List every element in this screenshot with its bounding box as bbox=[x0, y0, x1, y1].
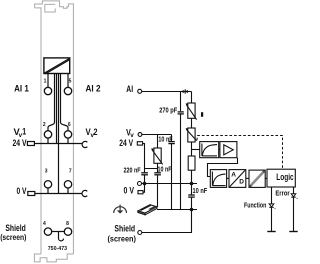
svg-text:10 nF: 10 nF bbox=[193, 188, 208, 195]
svg-text:7: 7 bbox=[69, 168, 72, 174]
svg-text:2: 2 bbox=[94, 127, 98, 137]
svg-text:3: 3 bbox=[45, 168, 48, 174]
svg-text:4: 4 bbox=[43, 221, 46, 227]
svg-text:Error: Error bbox=[275, 188, 289, 197]
svg-text:220 nF: 220 nF bbox=[124, 168, 142, 175]
svg-text:AI 1: AI 1 bbox=[14, 83, 29, 93]
svg-text:24 V: 24 V bbox=[13, 138, 27, 148]
svg-text:A: A bbox=[231, 171, 236, 178]
svg-text:10 nF: 10 nF bbox=[158, 136, 173, 143]
svg-text:10 nF: 10 nF bbox=[158, 166, 173, 173]
svg-text:0 V: 0 V bbox=[124, 185, 135, 195]
svg-text:Shield: Shield bbox=[114, 224, 135, 234]
svg-text:Logic: Logic bbox=[276, 172, 294, 183]
svg-text:AI 2: AI 2 bbox=[86, 84, 101, 94]
svg-text:8: 8 bbox=[66, 221, 69, 227]
svg-text:Function: Function bbox=[244, 201, 266, 210]
svg-text:(screen): (screen) bbox=[108, 233, 137, 243]
svg-text:1: 1 bbox=[22, 127, 26, 137]
svg-text:1: 1 bbox=[44, 78, 47, 84]
svg-text:750-473: 750-473 bbox=[48, 246, 67, 252]
svg-text:6: 6 bbox=[68, 122, 71, 128]
svg-text:(screen): (screen) bbox=[0, 232, 26, 242]
svg-text:24 V: 24 V bbox=[119, 138, 133, 148]
svg-text:270 pF: 270 pF bbox=[159, 108, 178, 115]
svg-text:AI: AI bbox=[126, 84, 133, 94]
svg-text:2: 2 bbox=[43, 122, 46, 128]
svg-text:5: 5 bbox=[69, 78, 72, 84]
svg-text:0 V: 0 V bbox=[17, 186, 27, 196]
svg-text:D: D bbox=[239, 179, 244, 186]
